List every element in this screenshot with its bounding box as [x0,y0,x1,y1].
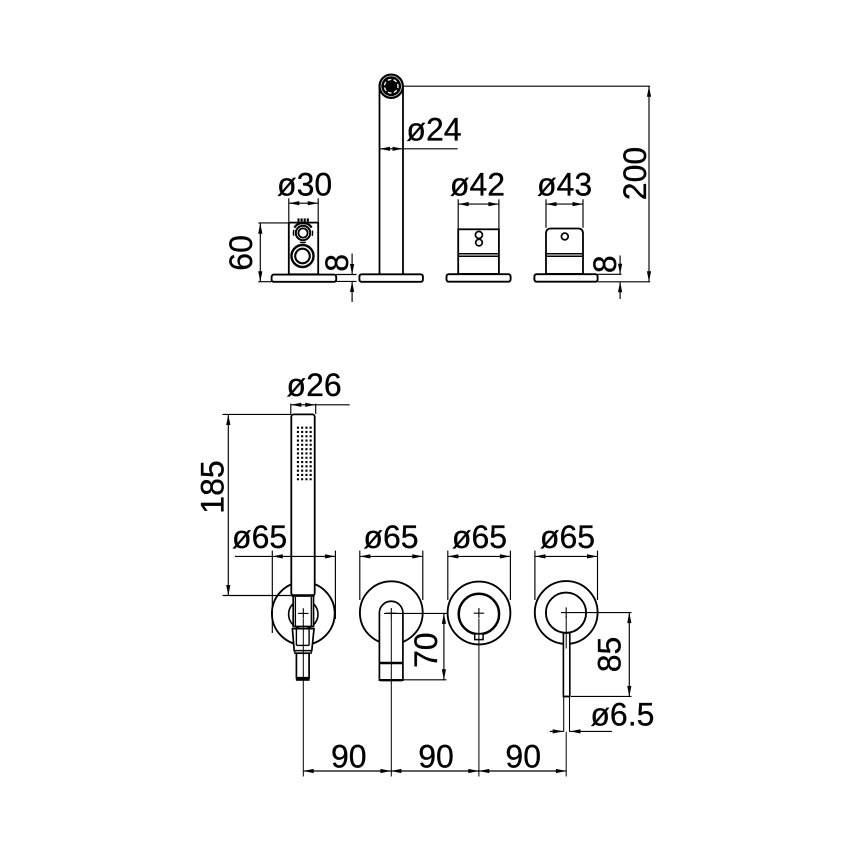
svg-text:ø65: ø65 [232,519,287,555]
svg-text:60: 60 [223,235,259,271]
svg-text:70: 70 [408,632,444,668]
svg-text:ø65: ø65 [452,519,507,555]
svg-text:ø26: ø26 [287,367,342,403]
svg-text:ø24: ø24 [406,112,461,148]
svg-text:ø6.5: ø6.5 [590,697,654,733]
svg-text:ø65: ø65 [363,519,418,555]
svg-text:90: 90 [505,738,541,774]
svg-text:ø43: ø43 [537,167,592,203]
svg-text:90: 90 [331,738,367,774]
svg-text:8: 8 [319,254,355,272]
svg-text:8: 8 [587,255,623,273]
svg-text:ø30: ø30 [277,167,332,203]
svg-text:85: 85 [591,637,627,673]
svg-text:185: 185 [195,460,231,513]
svg-text:90: 90 [418,738,454,774]
svg-text:200: 200 [617,147,653,200]
svg-text:ø42: ø42 [450,167,505,203]
svg-text:ø65: ø65 [540,519,595,555]
